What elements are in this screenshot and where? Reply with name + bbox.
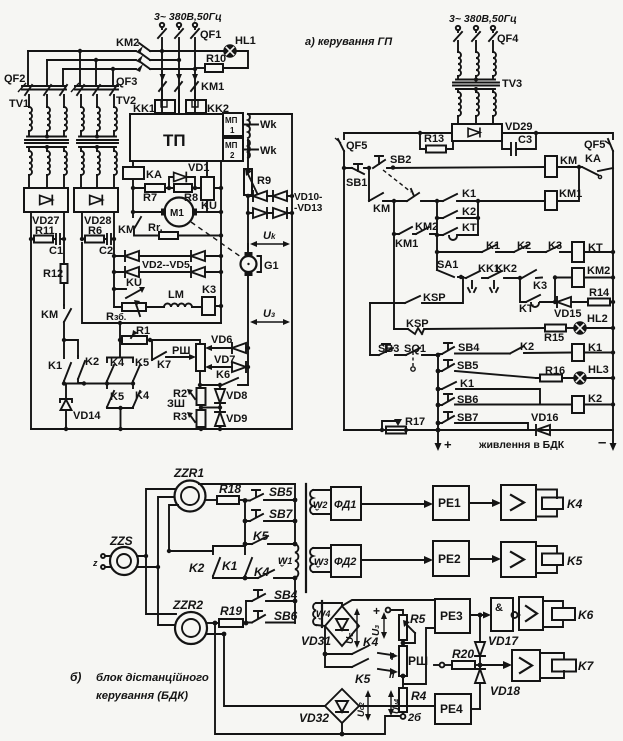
svg-text:KT: KT [462, 222, 477, 234]
dashed-linked blade on row 201 [394, 189, 437, 201]
wire bridge bottom join [107, 408, 133, 429]
svg-text:3~ 380В,50Гц: 3~ 380В,50Гц [154, 11, 222, 23]
svg-text:МП: МП [225, 141, 238, 150]
svg-text:МП: МП [225, 116, 238, 125]
wire bus x245 [244, 500, 246, 544]
svg-text:РЕ4: РЕ4 [440, 702, 463, 716]
breaker QF1 blades [158, 27, 199, 38]
thyristor converter TП box [130, 114, 223, 161]
svg-text:HL3: HL3 [588, 364, 609, 376]
wire M1 left to KM contact [133, 188, 161, 212]
svg-text:Uз: Uз [263, 308, 275, 320]
svg-text:Uc: Uc [345, 632, 356, 644]
svg-text:РЕ2: РЕ2 [438, 552, 461, 566]
svg-text:R17: R17 [405, 416, 425, 428]
wire row KK1 KK2 y278 [461, 277, 613, 278]
resistor R8 [174, 184, 192, 192]
svg-text:C1: C1 [49, 245, 63, 257]
wire reference down-bottom [215, 623, 399, 734]
svg-text:VD9: VD9 [226, 413, 247, 425]
TV3 secondary [456, 89, 495, 92]
svg-text:M1: M1 [170, 208, 184, 219]
svg-text:LM: LM [168, 289, 184, 301]
wire VD27 output leads [31, 212, 64, 239]
resistor R7 [145, 184, 165, 192]
wire lamp right down to R10 [223, 51, 248, 68]
svg-text:Wk: Wk [260, 145, 277, 157]
svg-text:SB1: SB1 [346, 177, 367, 189]
wire ФД2 to РЕ2 [361, 559, 427, 561]
amplifier K7 [512, 650, 540, 681]
svg-text:ZZS: ZZS [109, 534, 133, 548]
winding Wk beside МП [248, 114, 250, 158]
svg-text:KM1: KM1 [395, 238, 418, 250]
wire down to VD32 [224, 634, 324, 706]
wire row y51 from TV drops to KM2 and phase A [28, 50, 162, 52]
svg-text:KM: KM [560, 155, 577, 167]
TV1 core [25, 140, 68, 143]
relay coil K2 [572, 396, 584, 413]
relay K5 attachment [536, 546, 557, 573]
wire РЕ1 to amp [469, 502, 494, 504]
amplifier K4 [501, 485, 536, 520]
svg-text:SA1: SA1 [437, 259, 458, 271]
TV1 primary windings [29, 95, 64, 107]
svg-text:K4: K4 [567, 497, 583, 511]
rectifier VD28 box [74, 188, 118, 212]
wire VD28 bus [113, 239, 115, 307]
svg-text:VD2--VD5: VD2--VD5 [142, 259, 190, 271]
terminal C of QF1 [193, 23, 197, 27]
svg-text:KA: KA [585, 153, 601, 165]
wire bus down to G1 [247, 213, 249, 249]
relay coil K1 [572, 344, 584, 361]
svg-text:б): б) [70, 670, 81, 684]
svg-text:K5: K5 [567, 554, 583, 568]
svg-text:KT: KT [588, 242, 603, 254]
svg-text:R7: R7 [143, 192, 157, 204]
capacitor C2 [104, 234, 114, 244]
svg-text:VD14: VD14 [73, 410, 101, 422]
svg-text:Uk: Uk [263, 230, 276, 242]
svg-text:SB7: SB7 [269, 507, 294, 521]
svg-text:VD18: VD18 [490, 684, 520, 698]
wire HL1 branch [162, 50, 223, 52]
svg-text:VD15: VD15 [554, 308, 582, 320]
svg-text:TV3: TV3 [502, 78, 522, 90]
wire bus x437 [436, 201, 438, 270]
svg-text:G1: G1 [264, 260, 279, 272]
svg-text:VD31: VD31 [301, 634, 331, 648]
TV1 secondary windings [27, 147, 66, 151]
relay coil KM [545, 156, 557, 177]
svg-text:R9: R9 [257, 175, 271, 187]
svg-text:ЗШ: ЗШ [167, 398, 185, 410]
wire РШ to РЕ3 input [403, 628, 435, 684]
svg-text:3~ 380В,50Гц: 3~ 380В,50Гц [449, 13, 517, 25]
svg-text:K5: K5 [135, 357, 149, 369]
svg-text:R5: R5 [410, 612, 426, 626]
svg-text:РШ: РШ [172, 345, 190, 357]
svg-text:K2: K2 [462, 206, 476, 218]
amplifier K6 [519, 597, 543, 630]
Wk labels with ticks [243, 124, 258, 126]
rectifier VD29 box [452, 124, 502, 141]
svg-text:K7: K7 [157, 359, 171, 371]
svg-text:QF1: QF1 [200, 29, 221, 41]
dashed link SB2 to contact [383, 170, 411, 192]
svg-text:РЕ1: РЕ1 [438, 496, 461, 510]
wire right rail of right section [612, 151, 614, 430]
svg-text:РЕ3: РЕ3 [440, 609, 463, 623]
svg-text:SB2: SB2 [390, 154, 411, 166]
svg-text:KM2: KM2 [587, 265, 610, 277]
arrows feeding KM1 [160, 74, 199, 81]
wire KSP vertical to SB3 row [369, 303, 371, 355]
ZZS terminals [101, 554, 105, 558]
svg-text:2б: 2б [407, 712, 422, 724]
wire row K1 K2 K3 KT y252 [437, 251, 613, 253]
terminals of QF4 [456, 26, 460, 30]
svg-text:KM2: KM2 [415, 221, 438, 233]
TV2 secondary windings [79, 147, 116, 151]
svg-text:KM: KM [118, 224, 135, 236]
svg-text:керування (БДК): керування (БДК) [96, 690, 188, 702]
svg-text:TV1: TV1 [9, 98, 29, 110]
TV2 core [77, 140, 118, 143]
block МП1 [223, 113, 243, 136]
svg-text:ТП: ТП [163, 131, 186, 150]
svg-text:QF2: QF2 [4, 73, 25, 85]
svg-text:1: 1 [230, 126, 235, 135]
tachogenerator G1 [245, 252, 253, 257]
wire phase A vertical [161, 38, 163, 114]
wire bus x246 [245, 601, 247, 623]
TV3 core [453, 83, 499, 86]
svg-text:&: & [495, 602, 503, 614]
svg-text:–: – [598, 434, 606, 451]
wire TV2 phase drops [80, 51, 113, 86]
svg-text:QF5: QF5 [346, 140, 367, 152]
svg-text:QF4: QF4 [497, 33, 519, 45]
svg-text:VD17: VD17 [488, 634, 519, 648]
diodes VD2-VD5 row 1 [114, 255, 221, 257]
svg-text:R20: R20 [452, 647, 474, 661]
amplifier K5 [501, 542, 536, 577]
svg-text:блок дістанційного: блок дістанційного [96, 672, 209, 684]
svg-text:ФД2: ФД2 [334, 556, 356, 568]
wire VD28 output leads [82, 212, 114, 239]
svg-text:2: 2 [230, 151, 235, 160]
svg-text:QF3: QF3 [116, 76, 137, 88]
wire ZZR1 top to bus [199, 483, 295, 485]
block МП2 [223, 138, 243, 161]
block РЕ2 [433, 541, 469, 576]
minus output terminal [612, 430, 614, 443]
diodes VD2-VD5 row 2 [114, 271, 221, 273]
svg-text:K1: K1 [222, 559, 238, 573]
wire РЕ4 output [471, 708, 480, 710]
svg-text:VD16: VD16 [531, 412, 559, 424]
wire phase B vertical [178, 38, 180, 114]
TV2 primary windings [81, 95, 114, 107]
svg-text:K3: K3 [533, 280, 547, 292]
svg-text:K2: K2 [85, 356, 99, 368]
dashed mechanical link M1-G1 [191, 222, 241, 257]
wire bottom rail of section a [31, 428, 292, 430]
wire TП right output bus [220, 161, 222, 323]
wire mid rail [64, 383, 133, 385]
wire bottom row of control [344, 429, 613, 431]
wire ZZR2 lower lead [207, 633, 224, 635]
wire phases to KK [162, 91, 195, 114]
wire row y69 [63, 68, 195, 70]
svg-text:K5: K5 [355, 672, 371, 686]
block РЕ3 [435, 599, 470, 633]
contactor KM2 blade 2 [139, 52, 150, 60]
svg-text:KU: KU [201, 200, 217, 212]
wire R20 to amplifier K7 [480, 664, 505, 666]
lamp HL1 [224, 45, 236, 57]
diodes VD10-VD13 row 2 [248, 196, 292, 213]
wire left rail [30, 239, 32, 429]
svg-text:VD32: VD32 [299, 711, 329, 725]
wire row y60 [47, 59, 179, 61]
node dots on rows [78, 49, 82, 53]
svg-text:VD29: VD29 [505, 121, 533, 133]
wire РЕ2 to amp [469, 558, 494, 560]
wire VD32 bottom [341, 723, 343, 734]
relay K4 attachment [536, 490, 557, 517]
svg-text:R19: R19 [220, 604, 242, 618]
wire bus x394 [393, 201, 395, 329]
svg-text:Wk: Wk [260, 119, 277, 131]
contactor KM2 blade 3 [139, 61, 150, 69]
svg-text:KA: KA [146, 169, 162, 181]
terminal B of QF1 [177, 23, 181, 27]
wire harness ZZR1-ZZS-ZZR2 [146, 489, 176, 614]
photodetector block ФД1 [331, 487, 361, 520]
block РЕ1 [433, 486, 469, 520]
rectifier VD27 box [24, 188, 68, 212]
svg-text:Rзб.: Rзб. [106, 311, 126, 323]
svg-text:R15: R15 [544, 332, 564, 344]
svg-text:R3: R3 [173, 411, 187, 423]
svg-text:VD10-: VD10- [294, 192, 322, 203]
svg-text:+: + [373, 604, 380, 618]
svg-text:+: + [444, 437, 452, 452]
svg-text:C2: C2 [99, 245, 113, 257]
node split to K1/K2 [62, 338, 66, 342]
svg-text:KM2: KM2 [116, 37, 139, 49]
svg-text:ФД1: ФД1 [334, 499, 356, 511]
svg-text:K2: K2 [189, 561, 205, 575]
relay coil KM2 [572, 268, 584, 287]
transformer core bar [305, 484, 307, 592]
diodes VD10-VD13 row 1 [248, 195, 292, 197]
wire phase C vertical [194, 38, 196, 114]
svg-text:ZZR1: ZZR1 [173, 466, 204, 480]
motor M1 [165, 198, 194, 227]
wire right rail of section a [291, 114, 293, 429]
svg-text:KM1: KM1 [201, 81, 224, 93]
breaker QF4 blades [454, 30, 497, 41]
photodetector block ФД2 [331, 545, 361, 577]
svg-text:VD6: VD6 [211, 334, 232, 346]
relay coil KM1 [545, 191, 557, 210]
svg-text:-VD13: -VD13 [294, 203, 323, 214]
thyristor VD14 [60, 384, 72, 430]
relay K7 attachment [540, 653, 564, 678]
svg-text:K7: K7 [578, 659, 595, 673]
terminal 2б [402, 712, 404, 714]
wire TV1 phase drops [28, 51, 63, 86]
svg-text:HL2: HL2 [587, 313, 608, 325]
svg-text:R13: R13 [424, 133, 444, 145]
rheostat R9 [244, 169, 252, 195]
svg-text:ZZR2: ZZR2 [172, 598, 203, 612]
wire bottom loop of converter block [82, 243, 221, 323]
svg-text:живлення в БДК: живлення в БДК [478, 439, 565, 451]
wire top row y133 [344, 133, 613, 139]
svg-text:K1: K1 [462, 188, 476, 200]
svg-text:SB5: SB5 [457, 360, 478, 372]
svg-text:K6: K6 [578, 608, 594, 622]
relay coil KA [123, 167, 144, 179]
wire VD32 to РЕ4 [359, 705, 435, 707]
svg-text:K2: K2 [588, 393, 602, 405]
terminal A of QF1 [160, 23, 164, 27]
wire Wk top to right rail [248, 113, 292, 115]
svg-text:z: z [92, 558, 98, 568]
wire ФД1 to РЕ1 [361, 503, 427, 505]
svg-text:C3: C3 [518, 134, 532, 146]
svg-text:SB4: SB4 [274, 588, 298, 602]
svg-text:w̬2: w̬2 [313, 497, 327, 511]
svg-text:KM: KM [41, 309, 58, 321]
wire K4/K5 bridge top rail from R1 [107, 340, 133, 358]
AND gate [491, 598, 513, 631]
svg-text:QF5: QF5 [584, 139, 605, 151]
block РЕ4 [435, 694, 471, 724]
regulator KU box [201, 177, 214, 200]
wire control row y168 [344, 167, 545, 168]
svg-text:K6: K6 [216, 369, 230, 381]
svg-text:R18: R18 [219, 482, 241, 496]
svg-text:HL1: HL1 [235, 35, 256, 47]
svg-text:K3: K3 [202, 284, 216, 296]
svg-text:SB5: SB5 [269, 485, 293, 499]
plus output terminal [437, 430, 439, 443]
svg-text:KM: KM [373, 203, 390, 215]
svg-text:w̬1: w̬1 [278, 553, 292, 567]
svg-text:w̬3: w̬3 [314, 554, 328, 568]
wire KT row y302 [520, 278, 613, 303]
relay coil KT [572, 242, 584, 262]
svg-text:VD8: VD8 [226, 390, 247, 402]
svg-text:R14: R14 [589, 287, 610, 299]
wire left rail of right section [343, 151, 345, 430]
wire R10 left to phase C [195, 67, 205, 69]
node dots under rectifiers [29, 237, 33, 241]
svg-text:K1: K1 [48, 360, 62, 372]
wire bus x438 [437, 355, 439, 430]
capacitor C1 [53, 234, 64, 244]
contactor KM2 blade 1 [139, 43, 150, 51]
svg-text:w̬4: w̬4 [316, 606, 330, 620]
wire РЕ3 to & gate [470, 614, 486, 616]
svg-text:SQ1: SQ1 [404, 343, 426, 355]
wire VD31 to РЕ3 [342, 600, 435, 606]
svg-text:а) керування ГП: а) керування ГП [305, 36, 393, 48]
transformer TV3 primary [458, 41, 493, 52]
svg-text:R4: R4 [411, 689, 427, 703]
wire Wk bottom to R9 [247, 140, 249, 169]
svg-text:R10: R10 [206, 53, 226, 65]
resistor R10 [205, 64, 223, 72]
relay K6 attachment [543, 601, 563, 627]
svg-text:SB6: SB6 [274, 609, 298, 623]
svg-text:SB4: SB4 [458, 342, 480, 354]
